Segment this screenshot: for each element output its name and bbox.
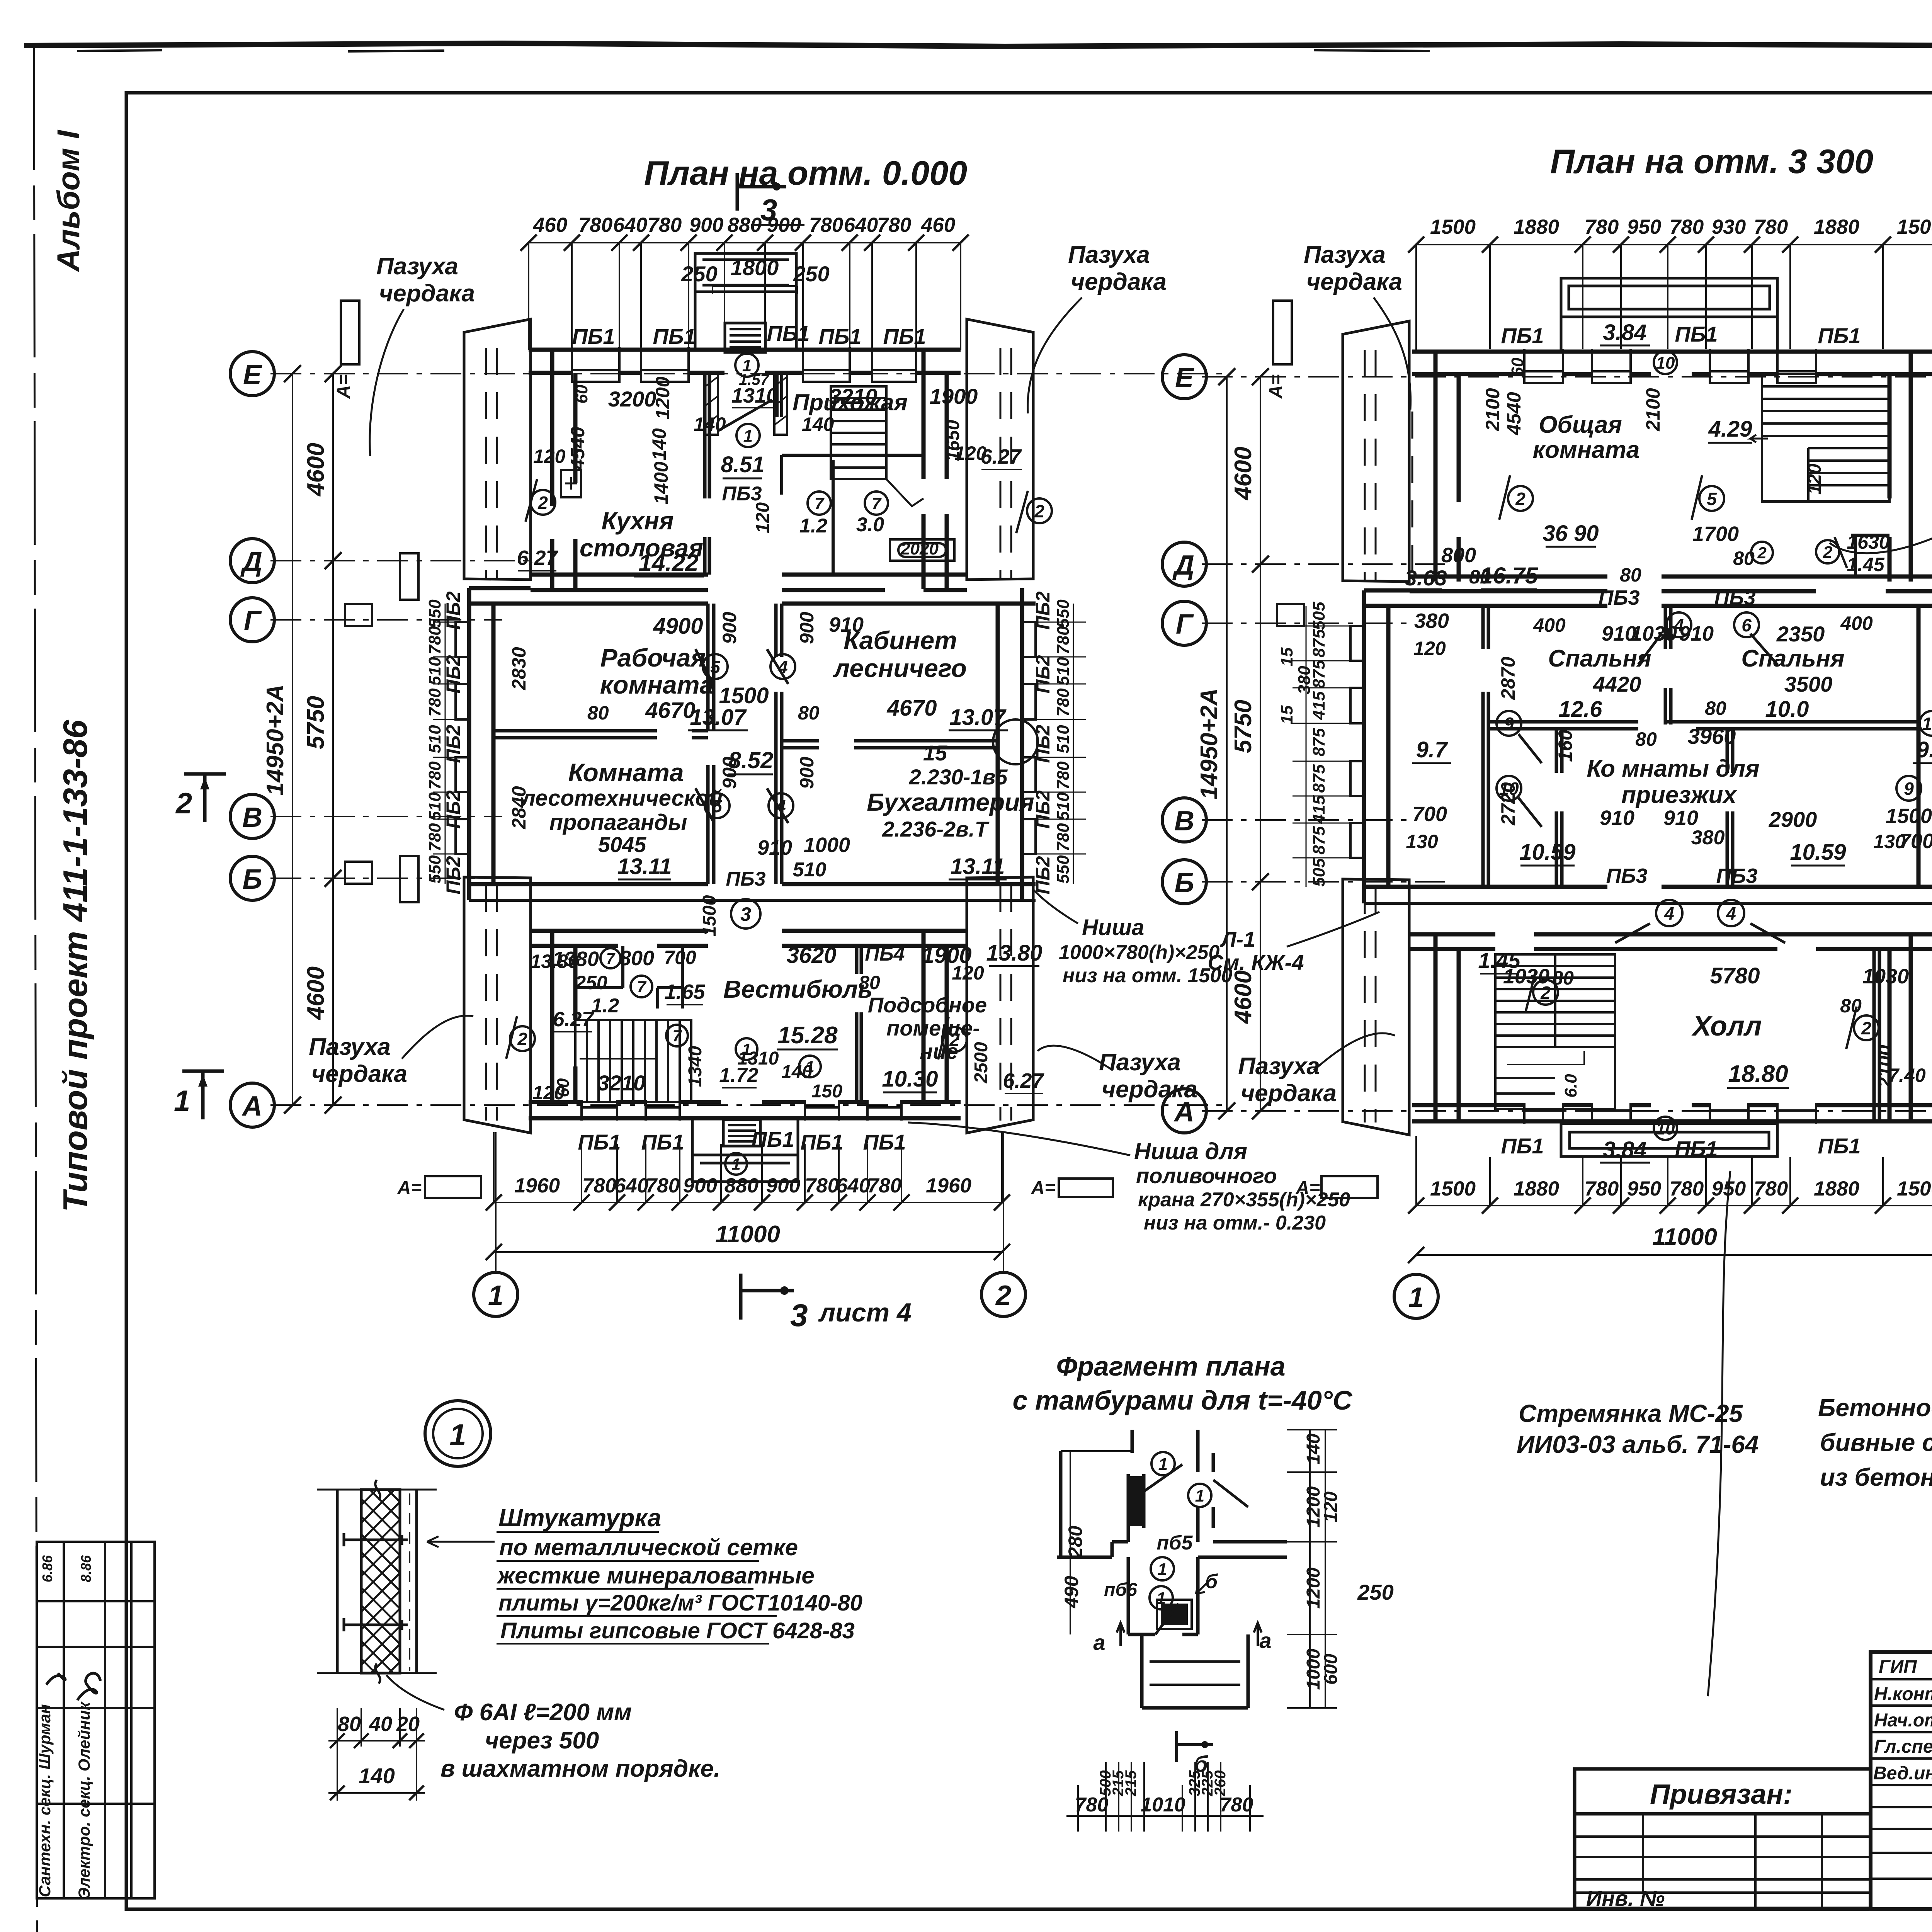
svg-text:120: 120 <box>1413 638 1446 659</box>
svg-text:Д: Д <box>240 546 262 577</box>
svg-text:1: 1 <box>731 1155 740 1173</box>
svg-text:780: 780 <box>1054 626 1073 655</box>
svg-text:260: 260 <box>1212 1770 1229 1797</box>
svg-text:1880: 1880 <box>1514 216 1559 238</box>
fragment left dims <box>1061 1451 1132 1634</box>
svg-text:6.27: 6.27 <box>1003 1069 1044 1092</box>
svg-text:1: 1 <box>1156 1589 1166 1608</box>
svg-text:910: 910 <box>1600 806 1634 830</box>
axis circle G plan2 <box>1162 601 1206 645</box>
fragment door leafs <box>1144 1464 1248 1634</box>
svg-text:а: а <box>1093 1630 1105 1655</box>
svg-text:510: 510 <box>1054 657 1073 685</box>
svg-text:1500: 1500 <box>1886 804 1932 828</box>
svg-text:1.2: 1.2 <box>799 515 827 537</box>
svg-text:Л-1: Л-1 <box>1220 927 1255 951</box>
PB2 labels right <box>1032 591 1054 894</box>
svg-text:4: 4 <box>1726 903 1736 923</box>
svg-text:А=: А= <box>397 1178 422 1198</box>
hall partition plan2 <box>1874 949 1879 1122</box>
svg-text:План на отм. 0.000: План на отм. 0.000 <box>644 154 967 192</box>
svg-text:ПБ2: ПБ2 <box>1032 724 1054 763</box>
svg-text:Вестибюль: Вестибюль <box>723 975 872 1003</box>
bedroom partition vertical plan2 <box>1483 606 1671 887</box>
detail break waves <box>375 1480 380 1684</box>
svg-text:10.59: 10.59 <box>1519 840 1575 865</box>
fragment plan walls <box>1057 1430 1287 1708</box>
svg-text:Фрагмент плана: Фрагмент плана <box>1056 1351 1285 1381</box>
porch dim 250 1800 250 <box>713 286 797 294</box>
svg-text:640: 640 <box>836 1174 870 1197</box>
svg-text:510: 510 <box>425 725 444 753</box>
middle band right wall <box>998 588 1022 900</box>
svg-text:Е: Е <box>243 359 262 390</box>
svg-text:3200: 3200 <box>608 387 656 411</box>
svg-text:400: 400 <box>1533 614 1566 636</box>
svg-text:6.0: 6.0 <box>1561 1074 1580 1098</box>
svg-text:1700: 1700 <box>1692 522 1739 546</box>
svg-text:1.2: 1.2 <box>591 995 619 1017</box>
axis lines horizontal plan2 <box>1202 377 1932 1111</box>
svg-text:780: 780 <box>425 626 444 655</box>
wing bottom wall D plan2 <box>1410 577 1932 591</box>
svg-text:10.59: 10.59 <box>1790 840 1846 865</box>
axis lines horizontal <box>270 374 1229 1105</box>
svg-text:1030: 1030 <box>1503 965 1549 988</box>
svg-text:550: 550 <box>425 599 444 628</box>
wing bottom wall D <box>531 575 967 590</box>
partition left rooms <box>493 731 708 738</box>
svg-text:14950+2А: 14950+2А <box>262 684 289 796</box>
svg-text:1: 1 <box>1158 1560 1167 1579</box>
axis circle G <box>230 598 274 642</box>
axis circle V <box>230 794 274 838</box>
svg-text:250: 250 <box>1357 1580 1393 1604</box>
paper top edge <box>24 43 1932 46</box>
svg-text:Кухня: Кухня <box>602 507 674 535</box>
svg-text:3.84: 3.84 <box>1603 1137 1647 1162</box>
svg-text:900: 900 <box>796 612 818 644</box>
svg-text:2020: 2020 <box>900 539 939 558</box>
svg-text:10: 10 <box>1656 354 1675 372</box>
svg-text:60: 60 <box>1508 357 1527 376</box>
fragment right dims <box>1287 1430 1337 1708</box>
svg-text:780: 780 <box>1585 1177 1619 1200</box>
svg-text:13.11: 13.11 <box>617 854 672 879</box>
svg-text:490: 490 <box>1061 1576 1082 1609</box>
svg-text:460: 460 <box>533 214 567 236</box>
svg-text:по металлической сетке: по металлической сетке <box>499 1534 798 1560</box>
svg-text:2830: 2830 <box>508 647 530 690</box>
svg-text:Пазуха: Пазуха <box>1304 241 1386 268</box>
axis 1 circle <box>495 1132 497 1272</box>
svg-text:2840: 2840 <box>508 786 530 829</box>
svg-text:4900: 4900 <box>653 614 703 639</box>
svg-text:План на отм. 3 300: План на отм. 3 300 <box>1550 142 1873 180</box>
svg-text:875: 875 <box>1310 728 1328 757</box>
svg-text:5750: 5750 <box>303 696 329 749</box>
svg-text:80: 80 <box>1705 697 1726 719</box>
middle band right windows <box>1022 622 1036 854</box>
svg-text:120: 120 <box>1321 1492 1341 1522</box>
wall detail body <box>317 1490 437 1673</box>
plan2 top dim chain <box>1416 245 1932 350</box>
svg-text:11000: 11000 <box>1652 1224 1717 1250</box>
axis 1 circle plan2 <box>1394 1274 1438 1318</box>
svg-text:380: 380 <box>1414 609 1449 633</box>
detail node circle 1 <box>425 1401 491 1466</box>
svg-text:3: 3 <box>740 903 751 925</box>
svg-text:Спальня: Спальня <box>1548 645 1651 672</box>
left stamp grid <box>37 1542 155 1898</box>
svg-text:1: 1 <box>174 1085 190 1117</box>
svg-text:640: 640 <box>613 214 647 236</box>
svg-text:1340: 1340 <box>685 1046 706 1087</box>
svg-text:ПБ1: ПБ1 <box>863 1130 906 1154</box>
svg-text:чердака: чердака <box>1071 269 1167 295</box>
svg-text:2870: 2870 <box>1497 656 1519 700</box>
svg-text:80: 80 <box>587 702 609 724</box>
svg-text:пб6: пб6 <box>1104 1580 1137 1600</box>
svg-text:950: 950 <box>1627 1177 1661 1200</box>
bottom wall windows <box>582 1100 901 1121</box>
svg-text:10.30: 10.30 <box>882 1066 938 1092</box>
left margin marker 1 <box>182 1071 224 1119</box>
svg-text:140: 140 <box>1303 1434 1324 1464</box>
svg-text:1: 1 <box>742 1040 751 1058</box>
svg-text:900: 900 <box>683 1174 717 1197</box>
svg-text:800: 800 <box>619 947 654 970</box>
svg-text:Ко мнаты для: Ко мнаты для <box>1587 755 1759 782</box>
svg-text:7: 7 <box>815 494 825 513</box>
detail ties <box>344 1533 408 1631</box>
svg-text:1960: 1960 <box>926 1174 971 1197</box>
svg-text:Электро. секц. Олейник: Электро. секц. Олейник <box>75 1701 93 1899</box>
svg-text:15.28: 15.28 <box>777 1022 838 1049</box>
svg-text:ПБ1: ПБ1 <box>767 321 810 345</box>
svg-text:250: 250 <box>681 262 717 286</box>
svg-text:2: 2 <box>1757 544 1766 562</box>
svg-text:Ниша для: Ниша для <box>1134 1138 1247 1164</box>
svg-text:2: 2 <box>1515 489 1526 509</box>
svg-text:ПБ1: ПБ1 <box>1818 1134 1861 1158</box>
svg-text:1880: 1880 <box>1814 216 1859 238</box>
svg-text:780: 780 <box>877 214 911 236</box>
middle band left windows <box>456 622 469 854</box>
svg-text:8.86: 8.86 <box>78 1555 94 1582</box>
axis 2 circle <box>1003 1132 1004 1272</box>
svg-text:780: 780 <box>1054 823 1073 852</box>
svg-text:ПБ2: ПБ2 <box>1032 591 1054 629</box>
svg-text:875: 875 <box>1310 826 1328 855</box>
svg-text:ПБ2: ПБ2 <box>442 790 464 828</box>
entry door leaf <box>718 400 772 431</box>
detail bottom dims <box>328 1708 425 1801</box>
svg-text:12.6: 12.6 <box>1559 697 1603 722</box>
svg-text:ПБ2: ПБ2 <box>442 724 464 763</box>
svg-text:бивные ступени: бивные ступени <box>1820 1429 1932 1456</box>
svg-text:3.63: 3.63 <box>1405 566 1447 590</box>
svg-text:ПБ3: ПБ3 <box>1716 864 1757 888</box>
svg-text:с тамбурами для t=-40°C: с тамбурами для t=-40°C <box>1013 1385 1353 1415</box>
svg-text:780: 780 <box>1075 1794 1109 1816</box>
svg-text:Общая: Общая <box>1539 412 1622 438</box>
svg-text:120: 120 <box>532 1082 565 1104</box>
entry grille bottom <box>723 1120 760 1146</box>
svg-text:5: 5 <box>710 657 721 677</box>
vestibule partition <box>857 946 861 1102</box>
svg-text:ПБ1: ПБ1 <box>641 1130 684 1154</box>
svg-text:3620: 3620 <box>786 943 836 968</box>
svg-text:4600: 4600 <box>1230 970 1257 1024</box>
svg-text:4600: 4600 <box>1230 447 1257 501</box>
svg-text:60: 60 <box>572 384 591 403</box>
main stamp outer <box>1871 1652 1932 1909</box>
bottom wing side walls plan2 <box>1435 934 1911 1122</box>
kitchen partition <box>705 373 709 575</box>
svg-text:910: 910 <box>1663 806 1698 830</box>
svg-text:36 90: 36 90 <box>1543 521 1599 546</box>
svg-text:130: 130 <box>1406 831 1438 852</box>
svg-text:780: 780 <box>1585 216 1619 238</box>
svg-text:Плиты гипсовые ГОСТ 6428-83: Плиты гипсовые ГОСТ 6428-83 <box>500 1618 855 1643</box>
svg-text:11000: 11000 <box>715 1221 780 1248</box>
stair bottom-left <box>575 1020 691 1102</box>
plan2 bottom dim chain <box>1416 1136 1932 1255</box>
svg-text:1: 1 <box>1195 1486 1204 1505</box>
svg-text:1500: 1500 <box>1430 216 1476 238</box>
svg-text:А: А <box>241 1091 262 1122</box>
svg-text:510: 510 <box>425 792 444 821</box>
axis circle B plan2 <box>1162 860 1206 904</box>
eaves dashed right <box>1000 348 1011 1121</box>
svg-text:2: 2 <box>1034 501 1044 521</box>
svg-text:лист 4: лист 4 <box>818 1298 912 1327</box>
gable quad bottom-left plan2 <box>1343 879 1409 1135</box>
bath tub top wing <box>890 539 954 561</box>
svg-text:2: 2 <box>1823 543 1833 562</box>
top wing side walls <box>552 350 947 589</box>
middle band windows plan2 <box>1350 626 1932 858</box>
svg-text:9: 9 <box>1904 779 1914 799</box>
svg-text:2: 2 <box>1861 1018 1871 1038</box>
svg-text:2: 2 <box>517 1029 527 1049</box>
top wall <box>529 350 961 373</box>
svg-text:крана 270×355(h)×250: крана 270×355(h)×250 <box>1138 1189 1350 1211</box>
svg-text:4600: 4600 <box>303 966 329 1020</box>
entry porch top <box>695 253 796 350</box>
middle band top wall <box>469 588 1036 604</box>
gable quad top-left plan2 <box>1343 321 1409 582</box>
stair bottom-left plan2 <box>1495 954 1615 1109</box>
svg-text:Гл.спец: Гл.спец <box>1874 1736 1932 1757</box>
svg-text:460: 460 <box>921 214 955 236</box>
svg-text:5: 5 <box>1707 489 1717 509</box>
svg-text:Б: Б <box>243 864 262 895</box>
svg-text:5045: 5045 <box>598 832 646 857</box>
svg-text:ПБ2: ПБ2 <box>1032 790 1054 828</box>
svg-text:640: 640 <box>614 1174 648 1197</box>
axis circle V plan2 <box>1162 798 1206 842</box>
fragment bottom marker b <box>1177 1731 1213 1762</box>
svg-text:Кабинет: Кабинет <box>844 626 957 655</box>
svg-text:1500: 1500 <box>699 895 720 936</box>
svg-text:780: 780 <box>809 214 843 236</box>
hall partitions top wing <box>777 373 923 575</box>
svg-text:900: 900 <box>689 214 723 236</box>
svg-text:280: 280 <box>1065 1526 1086 1558</box>
svg-text:1: 1 <box>1158 1455 1168 1474</box>
svg-text:5750: 5750 <box>1230 700 1257 753</box>
PB1 labels top plan2 <box>1501 322 1861 348</box>
svg-text:140: 140 <box>648 428 670 461</box>
svg-text:1: 1 <box>488 1280 503 1311</box>
svg-text:510: 510 <box>425 657 444 685</box>
svg-text:1500: 1500 <box>1897 1177 1932 1200</box>
axis circle E plan2 <box>1162 355 1206 399</box>
eaves dashed plan2 <box>1365 350 1932 1122</box>
svg-text:ПБ1: ПБ1 <box>751 1127 794 1151</box>
svg-text:1400: 1400 <box>650 461 672 504</box>
svg-text:900: 900 <box>767 214 801 236</box>
svg-text:900: 900 <box>719 612 740 644</box>
side tick chains right <box>1036 604 1086 884</box>
svg-text:700: 700 <box>1412 803 1447 826</box>
svg-text:2.236-2в.Т: 2.236-2в.Т <box>882 817 990 841</box>
svg-text:Типовой проект 411-1-133-86: Типовой проект 411-1-133-86 <box>56 719 94 1212</box>
PB1 labels top <box>572 321 926 349</box>
svg-text:160: 160 <box>1554 730 1576 762</box>
svg-text:380: 380 <box>1691 827 1725 849</box>
svg-text:Подсобное: Подсобное <box>868 993 987 1017</box>
side tick chain left plan2 <box>1293 606 1350 887</box>
svg-text:505: 505 <box>1310 858 1328 887</box>
svg-text:Пазуха: Пазуха <box>1238 1053 1320 1080</box>
svg-text:1880: 1880 <box>1514 1177 1559 1200</box>
svg-text:2900: 2900 <box>1769 807 1817 832</box>
svg-text:6.27: 6.27 <box>517 546 558 570</box>
svg-text:930: 930 <box>1712 216 1746 238</box>
svg-text:1880: 1880 <box>1814 1177 1859 1200</box>
svg-text:550: 550 <box>1054 855 1073 884</box>
svg-text:880: 880 <box>724 1174 759 1197</box>
axis circle D plan2 <box>1162 542 1206 586</box>
svg-text:2: 2 <box>175 787 192 820</box>
lower partitions plan2 <box>1556 729 1733 887</box>
svg-text:3210: 3210 <box>829 384 878 408</box>
svg-text:2100: 2100 <box>1642 388 1664 431</box>
svg-text:Г: Г <box>244 605 262 636</box>
svg-text:780: 780 <box>425 761 444 790</box>
svg-text:4: 4 <box>1673 615 1684 635</box>
svg-text:550: 550 <box>425 855 444 884</box>
svg-text:ПБ3: ПБ3 <box>722 483 762 505</box>
svg-text:1000: 1000 <box>804 833 850 857</box>
svg-text:2100: 2100 <box>1874 1045 1896 1088</box>
svg-text:А=: А= <box>333 374 354 399</box>
svg-text:1.65: 1.65 <box>664 980 705 1003</box>
svg-text:через 500: через 500 <box>485 1727 599 1754</box>
svg-text:4: 4 <box>1664 903 1674 923</box>
svg-text:ПБ1: ПБ1 <box>1675 1136 1718 1161</box>
svg-text:2: 2 <box>949 1030 959 1050</box>
svg-text:780: 780 <box>1754 1177 1788 1200</box>
svg-text:ПБ1: ПБ1 <box>578 1130 621 1154</box>
paper left edge <box>34 46 37 1932</box>
svg-text:910: 910 <box>757 836 792 859</box>
svg-text:14950+2А: 14950+2А <box>1196 688 1223 799</box>
svg-text:6: 6 <box>1742 615 1752 635</box>
svg-text:Сантехн. секц. Шурман: Сантехн. секц. Шурман <box>36 1704 54 1897</box>
svg-text:9: 9 <box>1504 714 1514 734</box>
svg-text:6.27: 6.27 <box>553 1008 594 1031</box>
svg-text:7: 7 <box>672 1027 682 1045</box>
svg-text:510: 510 <box>1054 725 1073 753</box>
svg-text:10: 10 <box>1922 714 1932 734</box>
svg-text:120: 120 <box>753 502 773 533</box>
svg-text:лесотехнической: лесотехнической <box>520 786 723 811</box>
svg-text:250: 250 <box>575 972 607 993</box>
svg-text:А=: А= <box>1266 374 1286 399</box>
svg-text:4670: 4670 <box>645 698 695 723</box>
gable quad top-right <box>967 319 1033 580</box>
svg-text:780: 780 <box>1054 688 1073 717</box>
middle band top wall plan2 <box>1364 590 1932 606</box>
svg-text:4420: 4420 <box>1593 672 1641 696</box>
svg-text:Е: Е <box>1175 362 1194 393</box>
svg-text:700: 700 <box>664 947 696 968</box>
svg-text:В: В <box>242 802 262 833</box>
svg-text:700: 700 <box>1899 830 1932 853</box>
svg-text:950: 950 <box>1627 216 1661 238</box>
axis circle A plan2 <box>1162 1089 1206 1133</box>
svg-text:415: 415 <box>1310 691 1328 720</box>
svg-text:чердака: чердака <box>1241 1080 1337 1107</box>
svg-text:Бухгалтерия: Бухгалтерия <box>867 788 1034 816</box>
svg-text:780: 780 <box>425 823 444 852</box>
svg-text:ПБ1: ПБ1 <box>653 324 696 349</box>
svg-text:комната: комната <box>1533 437 1640 463</box>
svg-text:комната: комната <box>600 670 714 699</box>
svg-text:4540: 4540 <box>1503 392 1525 435</box>
bottom marker 3 list 4 <box>741 1274 794 1320</box>
svg-text:120: 120 <box>533 446 566 467</box>
svg-text:Б: Б <box>1175 867 1194 898</box>
svg-text:Пазуха: Пазуха <box>376 253 458 280</box>
gable quad top-left <box>464 319 531 580</box>
svg-text:А=: А= <box>1031 1178 1056 1198</box>
fragment hatch pier <box>1129 1476 1142 1526</box>
svg-text:Бетонно- на-: Бетонно- на- <box>1818 1394 1932 1422</box>
svg-text:80: 80 <box>1620 564 1641 586</box>
svg-text:1.45: 1.45 <box>1847 554 1885 575</box>
svg-text:140: 140 <box>802 413 834 435</box>
svg-text:800: 800 <box>1441 544 1476 567</box>
svg-text:ПБ2: ПБ2 <box>442 591 464 629</box>
svg-text:Пазуха: Пазуха <box>1099 1049 1181 1076</box>
svg-text:низ на отм. 1500: низ на отм. 1500 <box>1063 964 1232 987</box>
svg-text:140: 140 <box>359 1764 395 1788</box>
svg-text:2500: 2500 <box>971 1042 992 1083</box>
svg-text:400: 400 <box>1840 612 1873 634</box>
PB1 labels bottom plan2 <box>1501 1134 1861 1161</box>
svg-text:Пазуха: Пазуха <box>309 1034 391 1060</box>
svg-text:2350: 2350 <box>1776 622 1825 646</box>
svg-text:ПБ2: ПБ2 <box>1032 655 1054 693</box>
svg-text:14.22: 14.22 <box>638 550 698 577</box>
svg-text:ПБ1: ПБ1 <box>1501 323 1544 348</box>
svg-text:ПБ3: ПБ3 <box>1598 586 1639 609</box>
